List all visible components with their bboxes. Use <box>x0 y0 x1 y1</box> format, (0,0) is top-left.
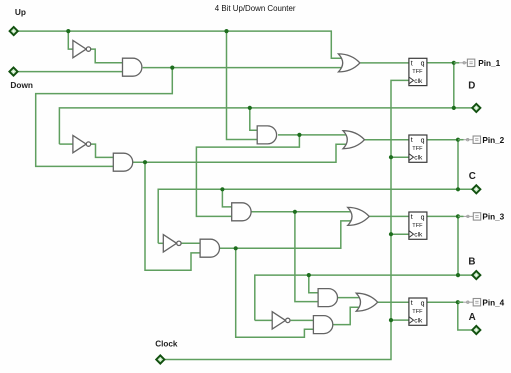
AND gate A3 (row 2 upper) <box>257 126 276 144</box>
output pin Pin_4 <box>458 301 464 303</box>
svg-text:clk: clk <box>414 232 423 239</box>
svg-text:clk: clk <box>414 155 423 162</box>
svg-text:t: t <box>411 214 413 221</box>
wire: Down net to AND1 lower input <box>18 71 122 73</box>
node: B net junction <box>456 273 460 277</box>
svg-text:Down: Down <box>10 80 33 90</box>
AND gate A4 (row 3 upper) <box>232 203 251 221</box>
svg-text:C: C <box>469 171 476 182</box>
AND gate A5 (row 3 lower) <box>200 239 219 257</box>
svg-text:A: A <box>469 312 476 323</box>
svg-text:q: q <box>421 214 425 221</box>
T flip-flop U3 (bit B) <box>409 212 427 239</box>
T flip-flop U4 (bit A) <box>409 298 427 325</box>
svg-text:D: D <box>468 81 475 92</box>
wire: Clock tap to TFF3 clk <box>391 233 409 235</box>
svg-text:clk: clk <box>414 318 423 325</box>
svg-text:TFF: TFF <box>412 146 423 152</box>
svg-text:t: t <box>411 61 413 68</box>
node: AND3 output junction <box>297 133 301 137</box>
wire: B net horizontal <box>255 275 472 320</box>
svg-text:B: B <box>468 256 475 267</box>
svg-text:TFF: TFF <box>412 223 423 229</box>
wire: C net to NOT3 input <box>158 242 163 244</box>
node: D net junction <box>452 106 456 110</box>
wire: AND1 output feedback to AND2 lower input <box>36 68 173 167</box>
node: clock/TFF4 junction <box>389 318 393 322</box>
wire: C net horizontal <box>158 189 472 243</box>
wire: OR2 output to TFF2 t input <box>364 139 409 141</box>
node: D/AND3 junction <box>248 106 252 110</box>
svg-text:Pin_4: Pin_4 <box>482 298 504 307</box>
wire: Clock tap to TFF2 clk <box>391 156 409 158</box>
wire: AND1 output to OR1 lower input <box>143 67 343 69</box>
inverter NOT1 (Up path) <box>73 40 86 57</box>
T flip-flop U2 (bit C) <box>409 135 427 162</box>
output pin diamond A <box>472 326 480 334</box>
wire: TFF1 q down to D net <box>453 63 455 108</box>
node: clock/TFF2 junction <box>389 155 393 159</box>
wire: TFF3 q down to B net <box>457 216 459 275</box>
node: TFF4 q junction <box>456 300 460 304</box>
svg-text:Pin_3: Pin_3 <box>482 213 504 222</box>
wire: OR1 output to TFF1 t input <box>360 62 409 64</box>
wire: TFF2 q down to C net <box>457 140 459 190</box>
node: AND2 output junction <box>143 160 147 164</box>
svg-text:q: q <box>421 137 425 144</box>
wire: D net to NOT2 input <box>59 143 73 145</box>
wire: B net to NOT4 input <box>255 319 272 321</box>
wire: NOT1 output to AND1 upper input <box>91 49 123 63</box>
output pin diamond B <box>472 271 480 279</box>
input pin Clock <box>156 355 164 363</box>
wire: C tap to AND4 upper input <box>222 189 231 207</box>
wire: AND3 output to OR2 upper input <box>278 134 348 136</box>
wire: Clock tap to TFF4 clk <box>391 319 409 321</box>
wire: AND2 output feedback to AND5 lower input <box>145 162 200 270</box>
output pin Pin_2 <box>458 139 464 141</box>
wire: D net horizontal <box>59 108 471 144</box>
node: Up/NOT1 junction <box>66 29 70 33</box>
svg-text:clk: clk <box>414 78 423 85</box>
node: TFF1 q junction <box>452 61 456 65</box>
svg-text:t: t <box>411 300 413 307</box>
svg-text:TFF: TFF <box>412 309 423 315</box>
wire: OR4 output to TFF4 t input <box>378 301 409 303</box>
AND gate A7 (row 4 lower) <box>313 316 332 334</box>
OR gate O3 (row 3) <box>348 207 370 225</box>
inverter NOT4 (row 4) <box>272 312 285 329</box>
inverter NOT2 (row 2) <box>73 135 86 152</box>
wire: AND3 output feedback to AND4 lower input <box>196 135 299 217</box>
node: C/AND4 junction <box>220 187 224 191</box>
wire: AND6 output to OR4 upper input <box>336 297 360 299</box>
AND gate A1 (row 1) <box>123 58 142 76</box>
wire: TFF1 q output <box>427 62 454 64</box>
node: Up/AND3 junction <box>224 29 228 33</box>
node: AND4 output junction <box>293 210 297 214</box>
wire: NOT4 output to AND7 upper input <box>291 319 314 321</box>
svg-text:Pin_2: Pin_2 <box>482 136 504 145</box>
T flip-flop U1 (bit D) <box>409 58 427 85</box>
OR gate O1 (row 1) <box>338 54 360 72</box>
svg-text:q: q <box>421 300 425 307</box>
wire: AND2 output to OR2 lower input <box>132 144 347 162</box>
node: AND5 output junction <box>234 246 238 250</box>
svg-text:q: q <box>421 61 425 68</box>
wire: Up tap to AND3 lower input <box>227 31 258 139</box>
node: clock/TFF3 junction <box>389 232 393 236</box>
wire: AND5 output feedback to AND7 lower input <box>236 248 314 337</box>
AND gate A2 (row 2 lower) <box>113 153 132 171</box>
wire: D tap to AND3 upper input <box>250 108 257 130</box>
node: AND1 output junction <box>170 66 174 70</box>
svg-text:Pin_1: Pin_1 <box>478 59 500 68</box>
wire: NOT2 output to AND2 upper input <box>90 144 113 157</box>
OR gate O4 (row 4) <box>356 293 378 311</box>
wire: AND7 output to OR4 lower input <box>332 307 361 324</box>
svg-text:Clock: Clock <box>155 340 178 349</box>
wire: TFF4 q down to pin A diamond <box>458 302 472 330</box>
node: C net junction <box>456 187 460 191</box>
wire: TFF3 q output <box>427 215 458 217</box>
inverter NOT3 (row 3) <box>163 235 176 252</box>
svg-text:TFF: TFF <box>412 69 423 75</box>
wire: AND4 output feedback to AND6 lower input <box>295 212 318 302</box>
output pin Pin_3 <box>458 215 464 217</box>
wire: B tap to AND6 upper input <box>309 275 318 293</box>
input pin Up <box>10 27 18 35</box>
svg-text:4 Bit Up/Down Counter: 4 Bit Up/Down Counter <box>215 4 296 13</box>
wire: AND4 output to OR3 upper input <box>251 211 353 213</box>
node: B/AND6 junction <box>307 273 311 277</box>
wire: AND5 output to OR3 lower input <box>219 221 352 248</box>
wire: NOT3 output to AND5 upper input <box>182 242 201 244</box>
node: TFF3 q junction <box>456 214 460 218</box>
OR gate O2 (row 2) <box>343 131 365 149</box>
node: TFF2 q junction <box>456 138 460 142</box>
svg-text:Up: Up <box>15 7 26 17</box>
input pin Down <box>9 68 17 76</box>
AND gate A6 (row 4 upper) <box>318 289 337 307</box>
wire: Up net to OR1 upper input <box>19 31 343 58</box>
output pin Pin_1 <box>454 62 460 64</box>
svg-text:t: t <box>411 137 413 144</box>
output pin diamond C <box>472 185 480 193</box>
wire: TFF2 q output <box>427 139 458 141</box>
wire: Clock net to TFF1 clk <box>165 80 409 359</box>
wire: TFF4 q output <box>427 301 458 303</box>
output pin diamond D <box>472 104 480 112</box>
wire: Up tap to NOT1 input <box>68 31 73 49</box>
wire: OR3 output to TFF3 t input <box>369 215 409 217</box>
